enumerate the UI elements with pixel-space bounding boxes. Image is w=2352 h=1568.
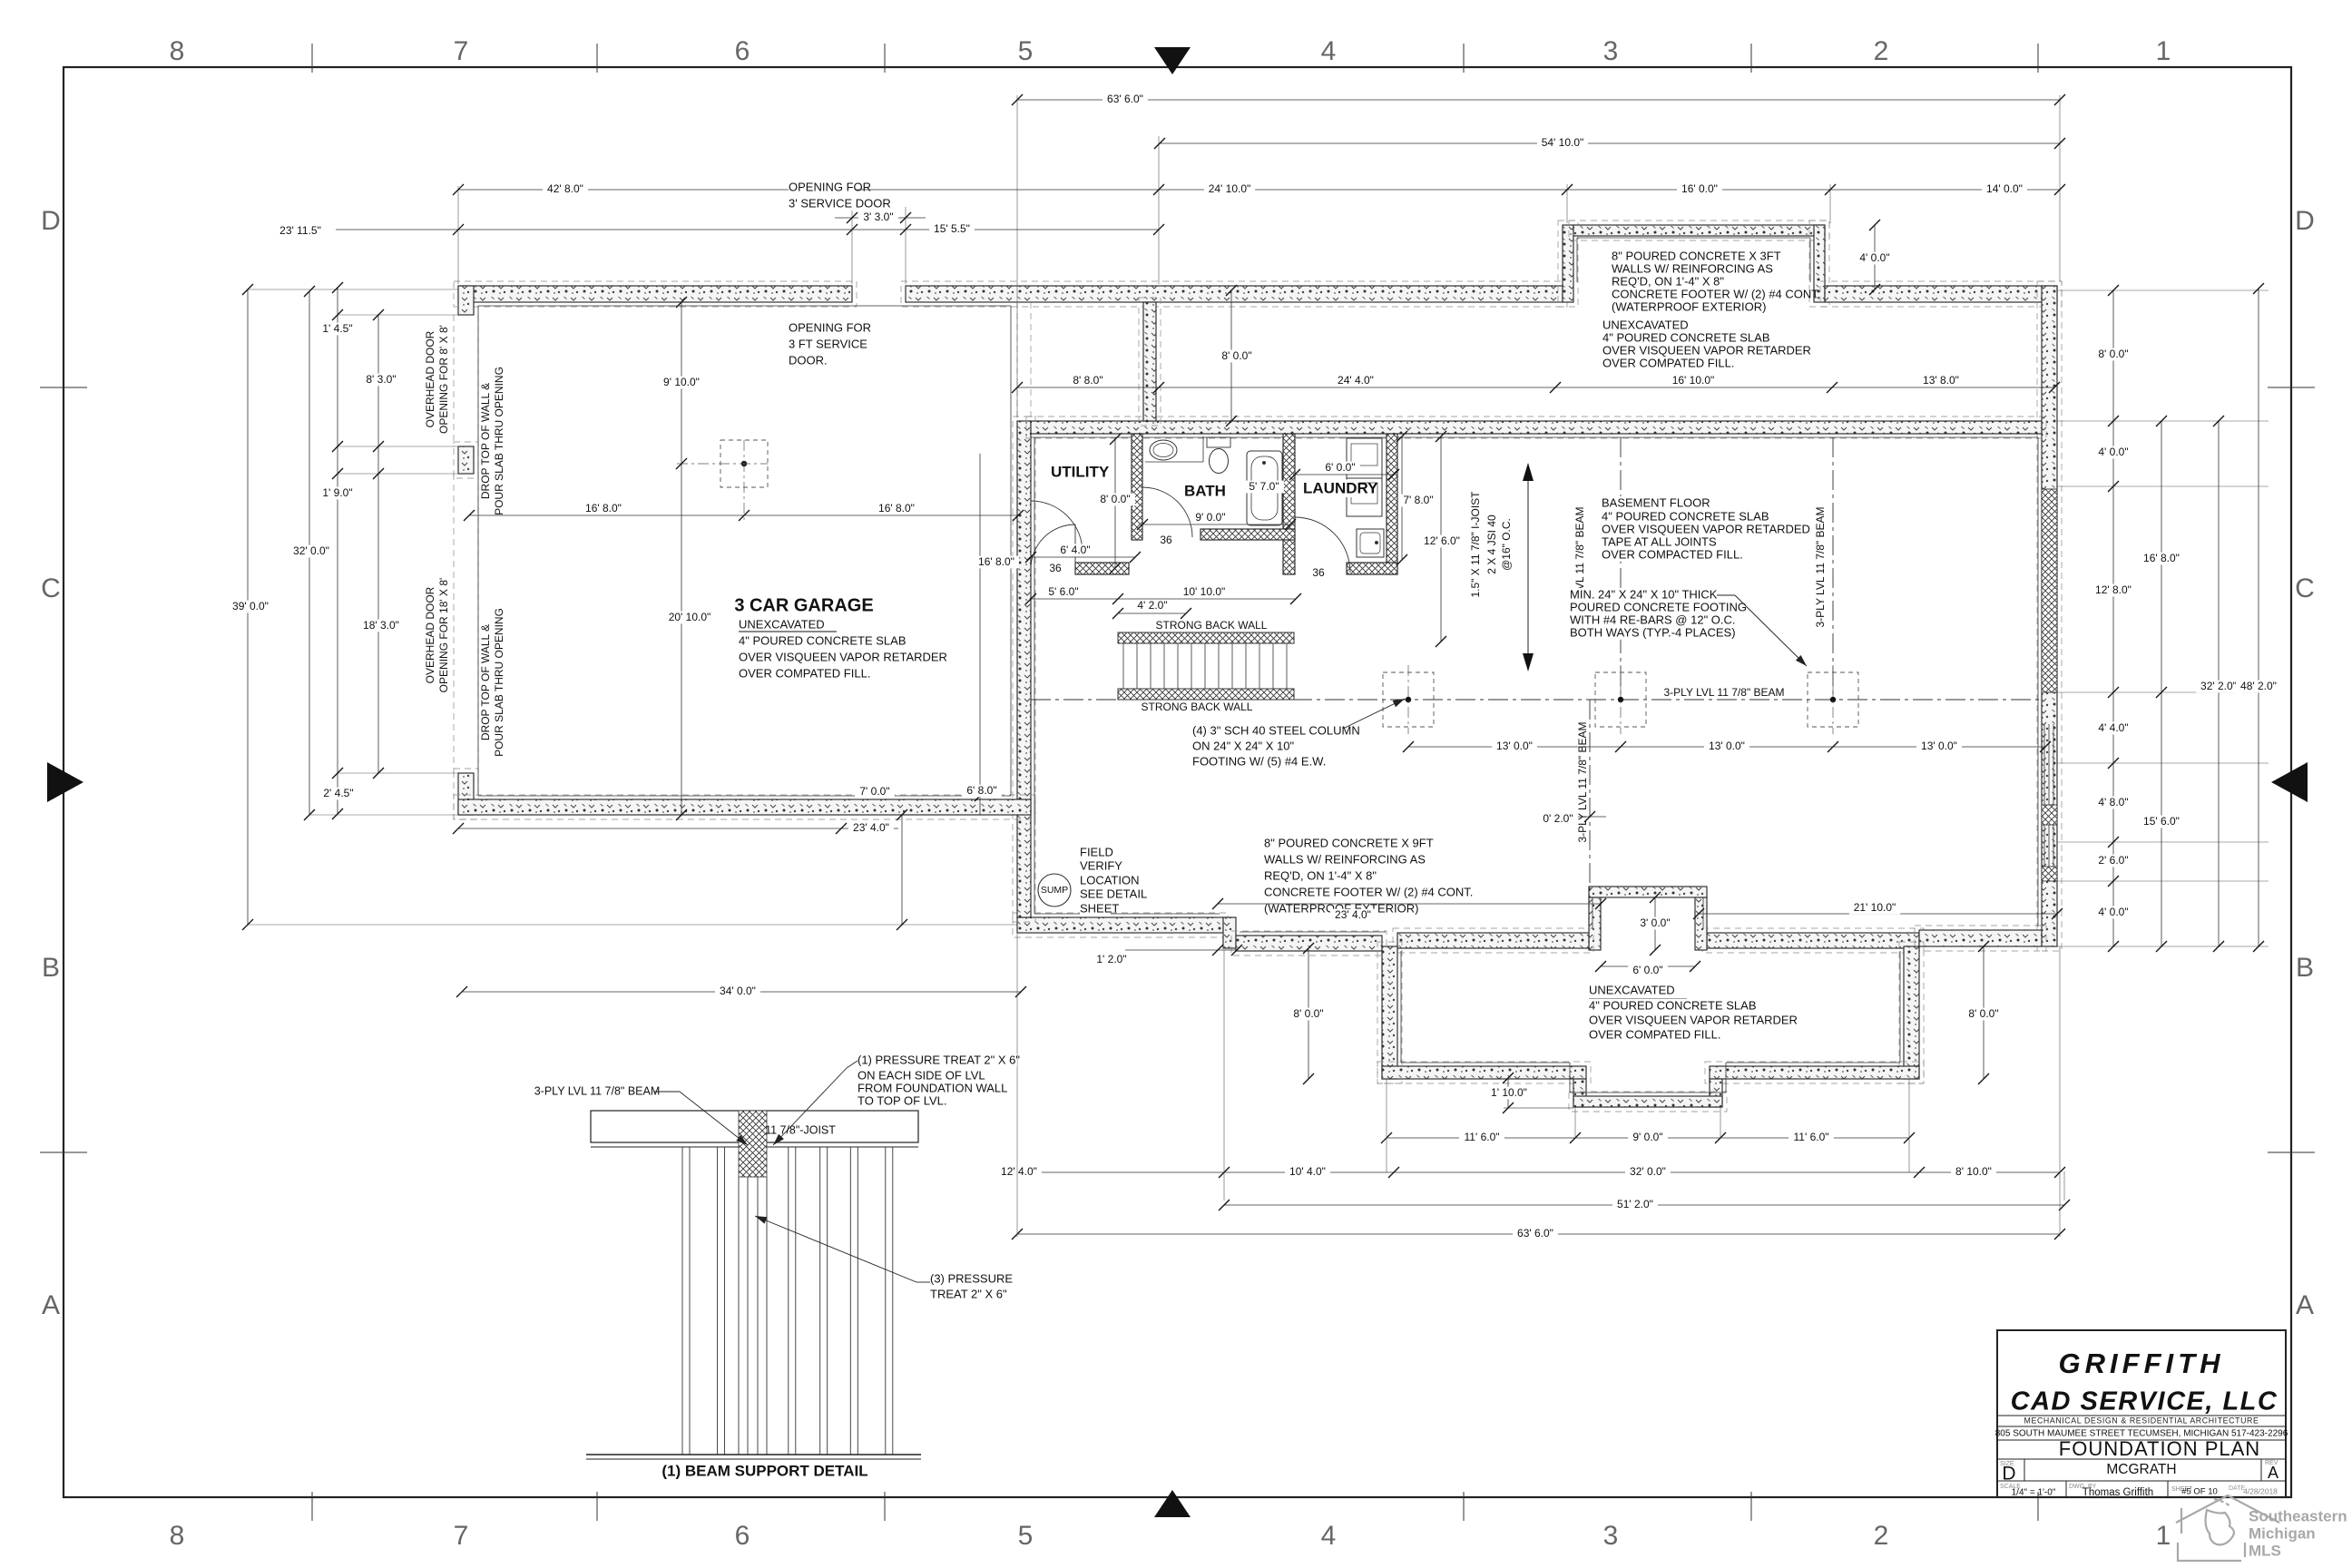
svg-text:#5 OF 10: #5 OF 10 <box>2181 1487 2218 1497</box>
svg-text:6' 0.0": 6' 0.0" <box>1632 964 1662 976</box>
svg-text:OVER VISQUEEN VAPOR RETARDER: OVER VISQUEEN VAPOR RETARDER <box>739 650 947 663</box>
svg-text:2: 2 <box>1874 1521 1889 1551</box>
svg-text:10' 10.0": 10' 10.0" <box>1183 585 1226 598</box>
svg-text:5' 7.0": 5' 7.0" <box>1249 480 1279 493</box>
svg-text:3 CAR GARAGE: 3 CAR GARAGE <box>734 595 873 615</box>
svg-text:2' 6.0": 2' 6.0" <box>2098 854 2128 867</box>
svg-text:OVER COMPACTED FILL.: OVER COMPACTED FILL. <box>1602 547 1743 561</box>
svg-text:WALLS W/ REINFORCING AS: WALLS W/ REINFORCING AS <box>1264 852 1426 866</box>
svg-text:7' 0.0": 7' 0.0" <box>859 785 889 798</box>
svg-text:39' 0.0": 39' 0.0" <box>232 600 269 612</box>
svg-text:1' 9.0": 1' 9.0" <box>322 486 352 499</box>
svg-text:7: 7 <box>454 36 469 66</box>
svg-text:16' 8.0": 16' 8.0" <box>585 502 622 514</box>
svg-text:OVER COMPATED FILL.: OVER COMPATED FILL. <box>1602 356 1734 369</box>
svg-text:OVERHEAD DOOR: OVERHEAD DOOR <box>424 330 436 427</box>
svg-text:9' 10.0": 9' 10.0" <box>663 376 700 388</box>
svg-text:MIN. 24" X 24" X 10" THICK: MIN. 24" X 24" X 10" THICK <box>1570 587 1718 601</box>
svg-text:UNEXCAVATED: UNEXCAVATED <box>739 617 825 631</box>
svg-text:TO TOP OF LVL.: TO TOP OF LVL. <box>857 1093 947 1107</box>
svg-text:B: B <box>42 953 60 983</box>
svg-text:3: 3 <box>1603 1521 1619 1551</box>
svg-text:63' 6.0": 63' 6.0" <box>1107 93 1143 105</box>
svg-text:4: 4 <box>1321 1521 1337 1551</box>
svg-text:4' 0.0": 4' 0.0" <box>2098 446 2128 458</box>
svg-text:8' 8.0": 8' 8.0" <box>1073 374 1102 387</box>
svg-text:Michigan: Michigan <box>2249 1524 2316 1542</box>
svg-text:8' 0.0": 8' 0.0" <box>1968 1007 1998 1020</box>
svg-text:16' 8.0": 16' 8.0" <box>878 502 915 514</box>
svg-text:8: 8 <box>170 36 185 66</box>
svg-text:1' 4.5": 1' 4.5" <box>322 322 352 335</box>
svg-text:FOOTING W/ (5) #4 E.W.: FOOTING W/ (5) #4 E.W. <box>1192 754 1326 768</box>
svg-text:11' 6.0": 11' 6.0" <box>1793 1131 1828 1143</box>
svg-text:(3) PRESSURE: (3) PRESSURE <box>930 1271 1013 1285</box>
svg-text:1' 10.0": 1' 10.0" <box>1491 1086 1527 1099</box>
svg-text:63' 6.0": 63' 6.0" <box>1517 1227 1553 1240</box>
svg-text:SUMP: SUMP <box>1041 885 1068 896</box>
svg-text:4' 0.0": 4' 0.0" <box>2098 906 2128 918</box>
svg-text:BASEMENT FLOOR: BASEMENT FLOOR <box>1602 495 1710 509</box>
svg-text:4' 2.0": 4' 2.0" <box>1137 599 1167 612</box>
svg-text:OPENING FOR 8' X 8': OPENING FOR 8' X 8' <box>437 325 450 434</box>
svg-text:1' 2.0": 1' 2.0" <box>1096 953 1126 965</box>
svg-text:42' 8.0": 42' 8.0" <box>547 182 583 195</box>
svg-text:32' 0.0": 32' 0.0" <box>293 544 329 557</box>
svg-text:8' 0.0": 8' 0.0" <box>2098 348 2128 360</box>
svg-text:6: 6 <box>735 36 750 66</box>
svg-text:5' 6.0": 5' 6.0" <box>1048 585 1078 598</box>
svg-text:3 FT SERVICE: 3 FT SERVICE <box>789 337 867 350</box>
svg-text:13' 0.0": 13' 0.0" <box>1709 740 1745 752</box>
svg-text:34' 0.0": 34' 0.0" <box>720 985 756 997</box>
svg-text:6' 8.0": 6' 8.0" <box>966 784 996 797</box>
svg-text:6' 0.0": 6' 0.0" <box>1325 461 1355 474</box>
svg-text:32' 0.0": 32' 0.0" <box>1630 1165 1666 1178</box>
svg-text:STRONG BACK WALL: STRONG BACK WALL <box>1142 701 1253 713</box>
svg-text:15' 5.5": 15' 5.5" <box>934 222 970 235</box>
svg-text:OVER VISQUEEN VAPOR RETARDED: OVER VISQUEEN VAPOR RETARDED <box>1602 522 1810 535</box>
svg-text:4" POURED CONCRETE SLAB: 4" POURED CONCRETE SLAB <box>1602 330 1770 344</box>
svg-text:OVER COMPATED FILL.: OVER COMPATED FILL. <box>1589 1027 1720 1041</box>
svg-text:1: 1 <box>2156 36 2171 66</box>
svg-text:23' 4.0": 23' 4.0" <box>1335 908 1371 921</box>
svg-text:2: 2 <box>1874 36 1889 66</box>
svg-text:A: A <box>42 1290 60 1320</box>
svg-text:8" POURED CONCRETE X 3FT: 8" POURED CONCRETE X 3FT <box>1612 249 1781 262</box>
svg-text:9' 0.0": 9' 0.0" <box>1632 1131 1662 1143</box>
svg-text:FOUNDATION PLAN: FOUNDATION PLAN <box>2059 1437 2260 1460</box>
svg-text:(4) 3" SCH 40 STEEL COLUMN: (4) 3" SCH 40 STEEL COLUMN <box>1192 723 1360 737</box>
svg-text:(1) PRESSURE TREAT 2" X 6": (1) PRESSURE TREAT 2" X 6" <box>857 1053 1020 1066</box>
svg-text:12' 6.0": 12' 6.0" <box>1424 534 1460 547</box>
svg-text:3-PLY LVL 11 7/8" BEAM: 3-PLY LVL 11 7/8" BEAM <box>1814 506 1827 627</box>
svg-text:UTILITY: UTILITY <box>1051 463 1110 480</box>
svg-text:9' 0.0": 9' 0.0" <box>1195 511 1225 524</box>
svg-text:C: C <box>2295 573 2315 603</box>
svg-text:3-PLY LVL 11 7/8" BEAM: 3-PLY LVL 11 7/8" BEAM <box>1663 686 1784 699</box>
svg-text:6' 4.0": 6' 4.0" <box>1060 544 1090 556</box>
svg-text:24' 10.0": 24' 10.0" <box>1209 182 1251 195</box>
svg-text:TAPE AT ALL JOINTS: TAPE AT ALL JOINTS <box>1602 534 1717 548</box>
svg-text:2 X 4 JSI 40: 2 X 4 JSI 40 <box>1485 514 1498 574</box>
svg-text:36: 36 <box>1312 566 1325 579</box>
svg-text:4' 0.0": 4' 0.0" <box>1859 251 1889 264</box>
svg-text:8' 0.0": 8' 0.0" <box>1221 349 1251 362</box>
svg-text:OVER COMPATED FILL.: OVER COMPATED FILL. <box>739 666 870 680</box>
svg-text:C: C <box>41 573 61 603</box>
svg-text:4' 4.0": 4' 4.0" <box>2098 721 2128 734</box>
svg-text:UNEXCAVATED: UNEXCAVATED <box>1602 318 1689 331</box>
svg-text:Thomas Griffith: Thomas Griffith <box>2082 1487 2153 1498</box>
svg-text:FIELD: FIELD <box>1080 845 1113 858</box>
svg-text:STRONG BACK WALL: STRONG BACK WALL <box>1156 619 1268 632</box>
svg-text:POURED CONCRETE FOOTING: POURED CONCRETE FOOTING <box>1570 600 1747 613</box>
svg-text:MECHANICAL DESIGN & RESIDENTIA: MECHANICAL DESIGN & RESIDENTIAL ARCHITEC… <box>2024 1416 2259 1425</box>
svg-text:16' 10.0": 16' 10.0" <box>1672 374 1715 387</box>
svg-text:11' 6.0": 11' 6.0" <box>1464 1131 1499 1143</box>
svg-text:2' 4.5": 2' 4.5" <box>323 787 353 799</box>
svg-text:D: D <box>41 206 61 236</box>
svg-text:GRIFFITH: GRIFFITH <box>2059 1347 2225 1379</box>
svg-text:12' 4.0": 12' 4.0" <box>1001 1165 1037 1178</box>
svg-text:36: 36 <box>1049 562 1062 574</box>
svg-text:SHEET: SHEET <box>1080 901 1119 915</box>
svg-text:4: 4 <box>1321 36 1337 66</box>
svg-text:TREAT 2" X 6": TREAT 2" X 6" <box>930 1287 1007 1300</box>
svg-text:3: 3 <box>1603 36 1619 66</box>
svg-text:A: A <box>2268 1464 2278 1482</box>
svg-text:LAUNDRY: LAUNDRY <box>1303 479 1378 496</box>
svg-text:@16" O.C.: @16" O.C. <box>1500 518 1513 571</box>
svg-text:REQ'D, ON 1'-4" X 8": REQ'D, ON 1'-4" X 8" <box>1612 274 1724 288</box>
svg-text:FROM FOUNDATION WALL: FROM FOUNDATION WALL <box>857 1081 1007 1094</box>
svg-text:24' 4.0": 24' 4.0" <box>1338 374 1374 387</box>
svg-text:OPENING FOR: OPENING FOR <box>789 320 871 334</box>
svg-text:DROP TOP OF WALL &: DROP TOP OF WALL & <box>479 383 492 499</box>
svg-text:54' 10.0": 54' 10.0" <box>1542 136 1584 149</box>
svg-text:12' 8.0": 12' 8.0" <box>2095 583 2131 596</box>
svg-text:4' 8.0": 4' 8.0" <box>2098 796 2128 808</box>
svg-text:A: A <box>2296 1290 2314 1320</box>
svg-text:13' 8.0": 13' 8.0" <box>1923 374 1959 387</box>
svg-text:8' 10.0": 8' 10.0" <box>1955 1165 1992 1178</box>
svg-text:48' 2.0": 48' 2.0" <box>2240 680 2277 692</box>
svg-text:20' 10.0": 20' 10.0" <box>669 611 711 623</box>
svg-text:(1) BEAM SUPPORT DETAIL: (1) BEAM SUPPORT DETAIL <box>661 1462 867 1479</box>
svg-text:13' 0.0": 13' 0.0" <box>1496 740 1533 752</box>
svg-text:8" POURED CONCRETE X 9FT: 8" POURED CONCRETE X 9FT <box>1264 836 1434 849</box>
svg-text:SEE DETAIL: SEE DETAIL <box>1080 887 1147 900</box>
svg-text:ON EACH SIDE OF LVL: ON EACH SIDE OF LVL <box>857 1068 985 1082</box>
svg-text:CONCRETE FOOTER W/ (2) #4 CONT: CONCRETE FOOTER W/ (2) #4 CONT. <box>1264 885 1473 898</box>
svg-text:16' 8.0": 16' 8.0" <box>2143 552 2180 564</box>
svg-text:3' 0.0": 3' 0.0" <box>1640 916 1670 929</box>
svg-text:POUR SLAB THRU OPENING: POUR SLAB THRU OPENING <box>493 608 505 757</box>
svg-text:UNEXCAVATED: UNEXCAVATED <box>1589 983 1675 996</box>
svg-text:CONCRETE FOOTER W/ (2) #4 CONT: CONCRETE FOOTER W/ (2) #4 CONT. <box>1612 287 1820 300</box>
svg-text:15' 6.0": 15' 6.0" <box>2143 815 2180 828</box>
svg-text:14' 0.0": 14' 0.0" <box>1986 182 2023 195</box>
svg-text:4" POURED CONCRETE SLAB: 4" POURED CONCRETE SLAB <box>739 633 906 647</box>
svg-text:OVER VISQUEEN VAPOR RETARDER: OVER VISQUEEN VAPOR RETARDER <box>1602 343 1811 357</box>
svg-text:3-PLY LVL 11 7/8" BEAM: 3-PLY LVL 11 7/8" BEAM <box>1576 721 1589 842</box>
svg-text:0' 2.0": 0' 2.0" <box>1543 812 1573 825</box>
svg-text:1: 1 <box>2156 1521 2171 1551</box>
svg-text:ON 24" X 24" X 10": ON 24" X 24" X 10" <box>1192 739 1295 752</box>
svg-text:13' 0.0": 13' 0.0" <box>1921 740 1957 752</box>
svg-text:10' 4.0": 10' 4.0" <box>1289 1165 1326 1178</box>
svg-text:16' 8.0": 16' 8.0" <box>978 555 1014 568</box>
svg-text:OVER VISQUEEN VAPOR RETARDER: OVER VISQUEEN VAPOR RETARDER <box>1589 1013 1798 1026</box>
svg-text:18' 3.0": 18' 3.0" <box>363 619 399 632</box>
svg-text:23' 4.0": 23' 4.0" <box>853 821 889 834</box>
svg-text:8: 8 <box>170 1521 185 1551</box>
svg-text:3' 3.0": 3' 3.0" <box>863 211 893 223</box>
svg-text:8' 0.0": 8' 0.0" <box>1100 493 1130 505</box>
svg-text:5: 5 <box>1018 1521 1034 1551</box>
svg-text:OPENING FOR 18' X 8': OPENING FOR 18' X 8' <box>437 578 450 693</box>
svg-text:16' 0.0": 16' 0.0" <box>1681 182 1718 195</box>
svg-text:LOCATION: LOCATION <box>1080 873 1140 887</box>
svg-text:BATH: BATH <box>1184 482 1226 499</box>
svg-text:8' 0.0": 8' 0.0" <box>1293 1007 1323 1020</box>
svg-text:4" POURED CONCRETE SLAB: 4" POURED CONCRETE SLAB <box>1602 509 1769 523</box>
svg-text:1.5" X 11 7/8" I-JOIST: 1.5" X 11 7/8" I-JOIST <box>1469 491 1482 598</box>
svg-text:WITH #4 RE-BARS @ 12" O.C.: WITH #4 RE-BARS @ 12" O.C. <box>1570 612 1736 626</box>
svg-text:7' 8.0": 7' 8.0" <box>1403 494 1433 506</box>
svg-text:D: D <box>2295 206 2315 236</box>
svg-text:DOOR.: DOOR. <box>789 353 828 367</box>
svg-text:51' 2.0": 51' 2.0" <box>1617 1198 1653 1210</box>
svg-text:WALLS W/ REINFORCING AS: WALLS W/ REINFORCING AS <box>1612 261 1773 275</box>
svg-text:B: B <box>2296 953 2314 983</box>
svg-text:MCGRATH: MCGRATH <box>2106 1462 2176 1477</box>
svg-text:VERIFY: VERIFY <box>1080 858 1122 872</box>
svg-text:21' 10.0": 21' 10.0" <box>1854 901 1896 914</box>
svg-text:OVERHEAD DOOR: OVERHEAD DOOR <box>424 586 436 683</box>
svg-text:POUR SLAB THRU OPENING: POUR SLAB THRU OPENING <box>493 367 505 515</box>
svg-text:1/4" = 1'-0": 1/4" = 1'-0" <box>2012 1488 2056 1498</box>
svg-text:DROP TOP OF WALL &: DROP TOP OF WALL & <box>479 624 492 740</box>
svg-text:7: 7 <box>454 1521 469 1551</box>
svg-text:REQ'D, ON 1'-4" X 8": REQ'D, ON 1'-4" X 8" <box>1264 868 1377 882</box>
svg-text:4" POURED CONCRETE SLAB: 4" POURED CONCRETE SLAB <box>1589 998 1757 1012</box>
svg-text:CAD SERVICE, LLC: CAD SERVICE, LLC <box>2011 1387 2278 1416</box>
svg-text:3-PLY LVL 11 7/8" BEAM: 3-PLY LVL 11 7/8" BEAM <box>534 1084 661 1097</box>
svg-text:5: 5 <box>1018 36 1034 66</box>
svg-text:32' 2.0": 32' 2.0" <box>2200 680 2237 692</box>
svg-text:(WATERPROOF EXTERIOR): (WATERPROOF EXTERIOR) <box>1612 299 1766 313</box>
svg-text:36: 36 <box>1160 534 1172 546</box>
svg-text:MLS: MLS <box>2249 1542 2281 1559</box>
svg-text:8' 3.0": 8' 3.0" <box>366 373 396 386</box>
svg-text:11 7/8"-JOIST: 11 7/8"-JOIST <box>765 1123 836 1136</box>
svg-text:6: 6 <box>735 1521 750 1551</box>
svg-text:Southeastern: Southeastern <box>2249 1507 2347 1524</box>
svg-text:3' SERVICE DOOR: 3' SERVICE DOOR <box>789 196 891 210</box>
svg-text:4/28/2018: 4/28/2018 <box>2243 1486 2278 1495</box>
svg-text:23' 11.5": 23' 11.5" <box>279 224 321 237</box>
svg-text:OPENING FOR: OPENING FOR <box>789 180 871 193</box>
svg-text:BOTH WAYS (TYP.-4 PLACES): BOTH WAYS (TYP.-4 PLACES) <box>1570 625 1736 639</box>
